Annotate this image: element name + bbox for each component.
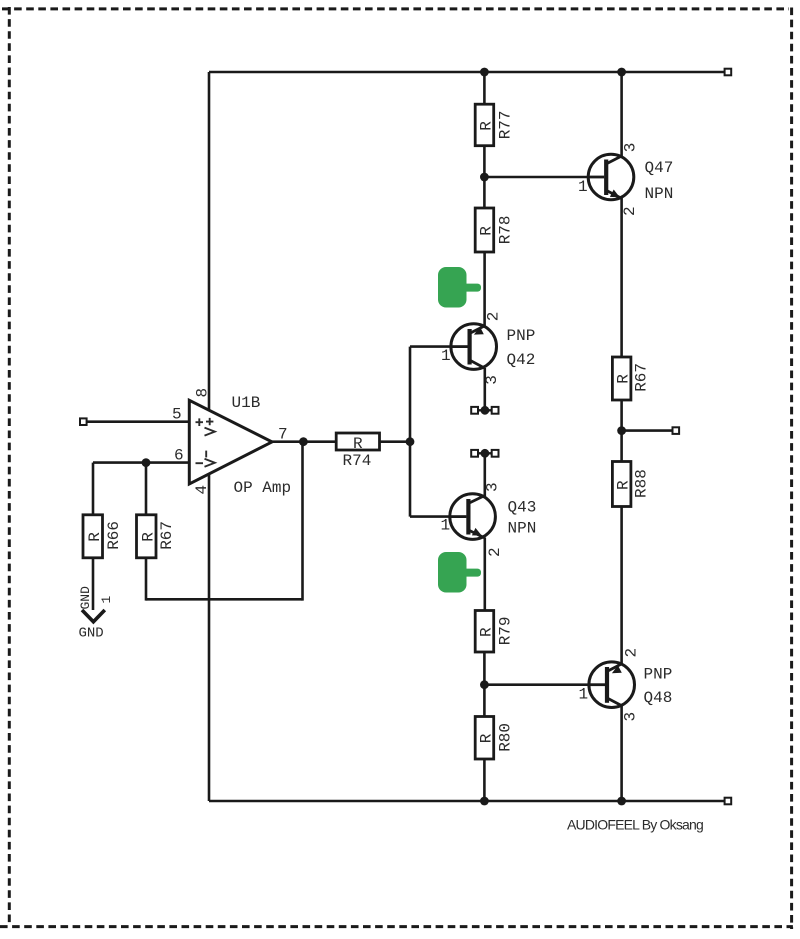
resistor R77	[475, 104, 494, 146]
svg-text:R: R	[477, 733, 495, 743]
svg-text:R66: R66	[105, 521, 123, 550]
op-amp plus marker pin5	[196, 418, 215, 467]
svg-text:R80: R80	[497, 723, 515, 752]
resistor R88	[612, 462, 631, 507]
wire Q47 emitter to R87	[620, 198, 623, 357]
connector symbol between Q42 and Q43 (upper)	[471, 406, 498, 415]
svg-text:2: 2	[623, 648, 641, 658]
transistor Q42	[451, 324, 497, 370]
node R74 right	[406, 437, 415, 446]
wire mid vertical (Q42 base to Q43 base)	[409, 347, 412, 517]
wire left rail upper	[208, 72, 211, 411]
node bottom rail / R80	[480, 797, 489, 806]
svg-text:R: R	[140, 532, 158, 542]
svg-text:R: R	[86, 532, 104, 542]
node R79 / R80 / Q48 base	[480, 680, 489, 689]
resistor R80	[475, 717, 494, 760]
svg-text:OP Amp: OP Amp	[234, 479, 292, 497]
svg-text:3: 3	[484, 482, 502, 492]
resistor R67	[137, 515, 157, 558]
terminal bottom right	[725, 798, 732, 805]
svg-text:Q47: Q47	[645, 159, 674, 177]
svg-text:Q48: Q48	[644, 689, 673, 707]
svg-text:NPN: NPN	[645, 185, 674, 203]
wire bottom rail	[209, 800, 727, 803]
node R77 / R78 / Q47 base	[480, 173, 489, 182]
svg-text:6: 6	[174, 447, 184, 465]
wire input pin5	[86, 420, 189, 423]
svg-text:U1B: U1B	[232, 394, 261, 412]
wire Q43 pin2 to R79	[483, 538, 486, 611]
terminal input pin5	[80, 418, 87, 425]
ground symbol	[82, 610, 105, 622]
resistor R66	[83, 515, 103, 558]
wire opamp output	[272, 440, 336, 443]
terminal top right	[725, 69, 732, 76]
wire R74 right	[380, 440, 411, 443]
terminal mid right	[673, 427, 680, 434]
wire mid-right output tap	[622, 429, 673, 432]
node output	[299, 437, 308, 446]
svg-text:3: 3	[622, 143, 640, 153]
transistor Q47	[588, 154, 634, 200]
svg-text:R: R	[477, 226, 495, 236]
svg-text:R74: R74	[343, 452, 372, 470]
wire top rail	[209, 71, 727, 74]
svg-text:3: 3	[622, 712, 640, 722]
svg-text:PNP: PNP	[644, 666, 673, 684]
op-amp rotated V+ label	[206, 418, 213, 425]
svg-text:R67: R67	[633, 363, 651, 392]
node bottom rail / Q48	[617, 797, 626, 806]
wire connector2 to Q43 pin3	[483, 457, 486, 498]
wire Q48 pin3 to bottom rail	[620, 706, 623, 802]
transistor Q43	[450, 494, 496, 540]
wire R87 bottom	[620, 400, 623, 462]
wire R77 top	[483, 72, 486, 105]
resistor R79	[475, 611, 494, 653]
svg-text:Q42: Q42	[507, 351, 536, 369]
node R87 / R88 / tap	[617, 426, 626, 435]
wire pin6	[93, 461, 189, 464]
wire R67 top	[145, 463, 148, 515]
wire Q47 collector to top rail	[620, 72, 623, 157]
transistor Q48	[589, 662, 635, 708]
svg-text:GND: GND	[78, 586, 93, 610]
wire Q43 base	[410, 515, 451, 518]
wire feedback vertical	[301, 442, 304, 601]
svg-text:4: 4	[193, 485, 211, 495]
resistor R74	[336, 433, 379, 450]
svg-text:7: 7	[278, 426, 288, 444]
svg-text:3: 3	[483, 375, 501, 385]
wire R66 bottom to gnd	[92, 558, 95, 611]
svg-text:2: 2	[485, 312, 503, 322]
svg-text:5: 5	[172, 406, 182, 424]
wire R78 top	[483, 177, 486, 208]
svg-text:AUDIOFEEL By Oksang: AUDIOFEEL By Oksang	[567, 817, 703, 833]
svg-text:R: R	[615, 480, 633, 490]
wire R88 bottom to Q48 pin2	[620, 507, 623, 664]
svg-text:1: 1	[441, 517, 451, 535]
svg-text:R: R	[477, 627, 495, 637]
resistor R78	[475, 208, 494, 252]
wire feedback horizontal	[146, 598, 303, 601]
wire Q42 base	[410, 345, 452, 348]
svg-text:2: 2	[621, 206, 639, 216]
svg-text:1: 1	[578, 178, 588, 196]
svg-text:R88: R88	[633, 469, 651, 498]
wire R78 to Q42 pin2	[483, 252, 486, 326]
wire R67 bottom	[145, 558, 148, 601]
svg-text:2: 2	[486, 547, 504, 557]
svg-text:Q43: Q43	[508, 499, 537, 517]
wire left rail lower	[208, 474, 211, 802]
wire Q48 base	[484, 683, 590, 686]
svg-text:NPN: NPN	[508, 520, 537, 538]
connector symbol between Q42 and Q43 (lower)	[471, 449, 498, 458]
op-amp rotated V- label	[205, 451, 207, 458]
svg-text:R79: R79	[497, 616, 515, 645]
svg-text:8: 8	[194, 388, 212, 398]
svg-text:R78: R78	[497, 215, 515, 244]
green probe marker lower	[438, 552, 481, 593]
svg-text:R67: R67	[158, 521, 176, 550]
svg-text:R: R	[615, 374, 633, 384]
wire R66 top	[92, 463, 95, 515]
svg-text:1: 1	[99, 596, 114, 604]
svg-text:1: 1	[579, 686, 589, 704]
green probe marker upper	[438, 267, 481, 308]
op-amp U1B triangle	[189, 400, 272, 484]
svg-text:R: R	[353, 435, 363, 453]
wire Q42 pin3 to connector	[483, 368, 486, 407]
wire R77 bottom	[483, 146, 486, 178]
svg-text:1: 1	[441, 347, 451, 365]
op-amp minus marker pin6	[196, 462, 204, 464]
resistor R87 (right upper)	[612, 357, 631, 400]
wire R79 bottom	[483, 652, 486, 717]
wire R80 bottom	[483, 759, 486, 801]
node pin6 / R67	[142, 458, 151, 467]
svg-text:R77: R77	[497, 110, 515, 139]
svg-text:GND: GND	[79, 626, 104, 642]
wire Q47 base	[484, 176, 590, 179]
svg-text:PNP: PNP	[507, 327, 536, 345]
node top rail / Q47 collector	[617, 68, 626, 77]
node top rail / R77	[480, 68, 489, 77]
svg-text:R: R	[477, 121, 495, 131]
